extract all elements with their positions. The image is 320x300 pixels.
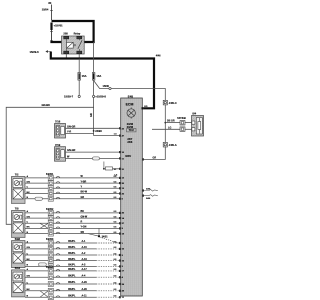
svg-text:LG: LG xyxy=(168,126,171,129)
wire 54/203 pin3 BK/PL xyxy=(25,252,124,257)
svg-text:5/98: 5/98 xyxy=(15,237,21,241)
fuse +15V01 xyxy=(50,23,52,31)
svg-text:3/5 GR: 3/5 GR xyxy=(167,120,175,123)
wire to fuse 1 xyxy=(78,59,80,73)
splice 24/98 xyxy=(93,130,95,132)
wire 54/204 pin2 BK/PL xyxy=(25,274,124,279)
svg-text:15A: 15A xyxy=(96,74,101,78)
svg-text:GR: GR xyxy=(153,157,157,160)
fuse 15A no1 xyxy=(78,73,87,81)
wire to J45LC xyxy=(111,89,165,101)
svg-text:A-1: A-1 xyxy=(82,240,87,243)
svg-text:GN-W: GN-W xyxy=(81,215,88,218)
svg-text:TCU: TCU xyxy=(129,129,134,132)
svg-text:BK: BK xyxy=(27,259,31,261)
wire 54/202 pin4 Y-GN xyxy=(25,226,124,231)
svg-text:A-16: A-16 xyxy=(82,258,88,261)
wire 54/203 pin5 BK/PL xyxy=(25,264,124,269)
svg-text:BK/PL: BK/PL xyxy=(68,240,76,243)
inline connector oval group1 xyxy=(35,197,42,200)
svg-text:A-17: A-17 xyxy=(82,268,88,271)
svg-text:15/54: 15/54 xyxy=(42,8,49,12)
svg-text:BK/PL: BK/PL xyxy=(68,264,76,267)
svg-text:GN-GR: GN-GR xyxy=(67,149,76,152)
wire relay pin87 stub xyxy=(65,54,67,59)
svg-text:7/16: 7/16 xyxy=(55,120,61,124)
svg-text:M4V: M4V xyxy=(125,154,131,158)
svg-text:GR: GR xyxy=(81,196,85,199)
ignition coil 5/34 xyxy=(12,266,26,297)
svg-text:A-28: A-28 xyxy=(82,288,88,291)
svg-text:ECM: ECM xyxy=(126,103,134,107)
wire ECM right out 24/5 xyxy=(142,189,144,191)
connector J45LC xyxy=(163,100,177,105)
wire into ECM pin A5 xyxy=(94,135,120,137)
wire 54/203 pin2 BK/PL xyxy=(25,246,125,251)
connector arrow 15/29-6 xyxy=(46,51,51,53)
ignition coil 7/2 xyxy=(12,173,26,204)
wire crossing group2 xyxy=(40,223,48,228)
svg-text:GN: GN xyxy=(90,113,93,117)
wire 7/16 pin1 GN-GR xyxy=(66,127,120,129)
relay 54T3/B pin 30 xyxy=(180,121,185,125)
svg-text:GN: GN xyxy=(27,276,31,278)
wire 54/203 pin4 BK/PL xyxy=(25,258,125,263)
svg-text:A-11: A-11 xyxy=(82,294,88,297)
wire 54/202 pin1 BK xyxy=(25,210,125,215)
svg-text:A-3: A-3 xyxy=(82,264,87,267)
svg-text:SB: SB xyxy=(81,231,85,234)
svg-text:BK/PL: BK/PL xyxy=(68,252,76,255)
wire 54/201 pin1 W xyxy=(25,175,125,180)
svg-text:BK/PL: BK/PL xyxy=(68,258,76,261)
ignition coil 5/98 xyxy=(12,237,26,268)
inline connector 15/30 xyxy=(109,87,111,89)
svg-text:30: 30 xyxy=(48,1,52,5)
svg-text:BK/PL: BK/PL xyxy=(68,246,76,249)
wire 54/201 pin4 BK-W xyxy=(25,191,125,196)
wire relay pin85 stub xyxy=(78,54,80,59)
wire battery feed vertical xyxy=(51,5,53,21)
svg-text:15/29-6: 15/29-6 xyxy=(30,50,40,54)
svg-text:24/8: 24/8 xyxy=(127,141,132,144)
svg-text:BK/PL: BK/PL xyxy=(68,274,76,277)
svg-text:BK-W: BK-W xyxy=(81,191,88,194)
wire 54/203 pin1 BK/PL xyxy=(25,240,124,245)
svg-text:BK/PL: BK/PL xyxy=(68,288,76,291)
ECM thick feed pin xyxy=(142,107,144,109)
svg-text:BK: BK xyxy=(27,192,31,194)
svg-text:Y-R: Y-R xyxy=(67,131,71,134)
wire 54/201 pin3 Y xyxy=(25,186,125,191)
wire tee GN-BK to left rail xyxy=(6,107,93,224)
svg-text:BK/PL: BK/PL xyxy=(68,294,76,297)
svg-text:+15V01: +15V01 xyxy=(54,23,64,27)
svg-text:8/4: 8/4 xyxy=(192,112,196,116)
svg-text:+15/29-8: +15/29-8 xyxy=(95,94,106,98)
relay 54T3/B pin 85 xyxy=(180,127,185,131)
wire 54/201 pin5 GR xyxy=(25,196,124,201)
wire 54/202 pin3 R xyxy=(25,221,125,226)
wire shield drain dashed xyxy=(100,237,118,243)
wire fuse2 feed column xyxy=(93,42,95,73)
svg-text:A-15: A-15 xyxy=(82,246,88,249)
wire LG xyxy=(152,128,180,130)
svg-text:Relay: Relay xyxy=(74,33,81,36)
svg-text:GN: GN xyxy=(27,247,31,249)
svg-text:15/30: 15/30 xyxy=(103,84,110,88)
wire thick main feed rail xyxy=(51,52,154,109)
svg-text:BK/PL: BK/PL xyxy=(68,268,76,271)
ground splice 24/31 xyxy=(98,228,100,236)
wire relay to 8/4 pins xyxy=(185,122,192,124)
wire gauge labels xyxy=(114,176,118,297)
component 8/4 xyxy=(192,112,204,136)
wire 7/19 pin1 GN-GR xyxy=(66,151,120,153)
wire fuse2 branch diagonal xyxy=(94,81,109,89)
svg-text:A-29: A-29 xyxy=(82,281,88,284)
inline connector oval group3 xyxy=(39,263,47,266)
svg-text:Y-GN: Y-GN xyxy=(81,226,87,229)
svg-text:7/19: 7/19 xyxy=(55,143,61,147)
svg-text:BK: BK xyxy=(27,227,31,229)
svg-text:5/34: 5/34 xyxy=(15,266,21,270)
wire 3/5 GR tap xyxy=(164,122,166,124)
wire 54/204 pin4 BK/PL xyxy=(25,288,125,293)
svg-text:24/98: 24/98 xyxy=(95,129,102,133)
wire 7/16 pin2 Y-R xyxy=(66,132,94,134)
wire 7/19 pin2 W xyxy=(66,157,120,159)
svg-text:GN: GN xyxy=(27,216,31,218)
svg-text:R: R xyxy=(81,221,83,224)
wire 54/201 pin2 Y-BR xyxy=(25,180,125,185)
wire ECM right out 24/6 xyxy=(142,195,144,197)
ECM 4/46 module xyxy=(121,94,143,296)
terminal +15/29-8 xyxy=(93,95,95,97)
svg-text:208: 208 xyxy=(63,32,68,36)
connector J45LA xyxy=(163,142,177,147)
wire thick battery top loop xyxy=(52,21,94,42)
wire crossing group4 xyxy=(40,291,48,297)
svg-text:4/46: 4/46 xyxy=(156,55,161,58)
wire 54/204 pin5 BK/PL xyxy=(25,294,125,299)
svg-text:BK: BK xyxy=(27,289,31,291)
svg-text:7/2: 7/2 xyxy=(15,173,19,177)
svg-text:BK/PL: BK/PL xyxy=(68,281,76,284)
svg-text:7/8: 7/8 xyxy=(15,207,19,211)
wire 54/204 pin3 BK/PL xyxy=(25,281,125,286)
wire 54/202 pin5 SB xyxy=(25,231,125,236)
connector 7/16 xyxy=(55,120,66,138)
wire fuse1 to terminal 15/29-7 xyxy=(78,80,80,95)
splice and inline connector 24/99 xyxy=(103,162,105,169)
wire 54/204 pin1 BK/PL xyxy=(25,268,125,273)
wire fuse to relay thick feed xyxy=(51,30,53,40)
svg-text:15A: 15A xyxy=(82,74,87,78)
svg-text:GN-BK: GN-BK xyxy=(42,103,51,107)
relay 208 xyxy=(62,36,85,54)
svg-text:J45LA: J45LA xyxy=(169,143,177,147)
svg-text:54T3/B: 54T3/B xyxy=(177,116,186,120)
svg-text:Y-BR: Y-BR xyxy=(81,180,87,183)
svg-text:BK: BK xyxy=(81,210,85,213)
svg-text:15/29-7: 15/29-7 xyxy=(64,94,74,98)
svg-text:J45LC: J45LC xyxy=(169,101,177,105)
svg-text:A-4: A-4 xyxy=(82,274,87,277)
ignition coil 7/8 xyxy=(12,207,26,238)
wire GR return to ECM xyxy=(143,147,165,159)
svg-text:A-2: A-2 xyxy=(82,252,87,255)
svg-text:RD: RD xyxy=(144,106,148,108)
wire 54/202 pin2 GN-W xyxy=(25,215,125,220)
terminal 15/29-7 xyxy=(78,95,80,97)
svg-text:GN-GR: GN-GR xyxy=(67,125,76,128)
inline connector on A/19 wire xyxy=(93,157,100,160)
wire GN down from terminal xyxy=(93,98,95,136)
connector 7/19 xyxy=(55,143,66,161)
fuse 15A no2 xyxy=(92,73,101,81)
svg-text:GN: GN xyxy=(27,181,31,183)
wire J45LC down xyxy=(164,105,166,142)
wire fuse2 to terminal +15/29-8 xyxy=(93,80,95,95)
